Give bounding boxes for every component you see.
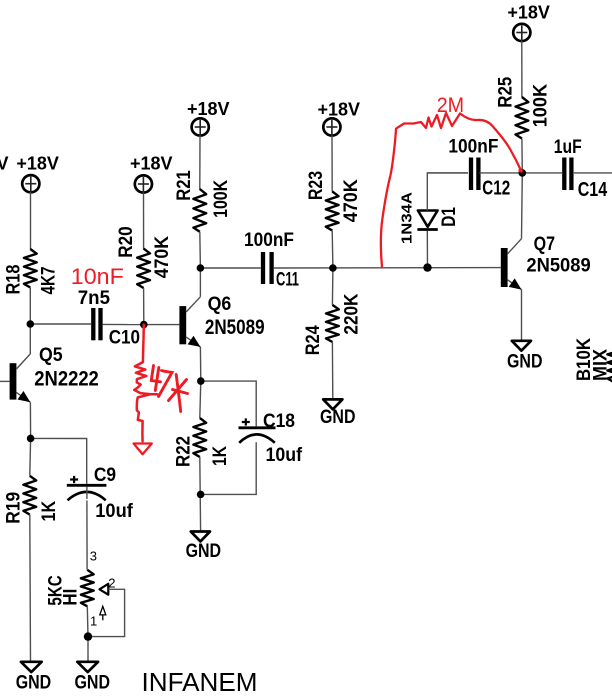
wire P2 to R20 [143,193,145,249]
resistor R19 1K [4,476,61,524]
svg-text:470K: 470K [341,179,362,222]
svg-text:Q7: Q7 [534,233,555,255]
wire R23 bottom to node [331,231,334,269]
wire node row y=268 [200,267,500,269]
red hand-drawn 2M resistor wire [381,113,523,267]
svg-text:10uf: 10uf [95,501,133,522]
wire P4 to R23 [331,136,333,192]
red annotation 2M text [437,94,464,117]
svg-text:R24: R24 [303,325,324,355]
svg-text:10uf: 10uf [266,445,303,466]
svg-text:+18V: +18V [318,100,361,120]
wire P5 to R25 [521,41,523,97]
svg-text:GND: GND [75,673,111,694]
svg-text:1: 1 [90,614,97,629]
wire R20 bottom to node [143,288,145,325]
node R22/C18/GND [197,491,205,499]
resistor R24 220K [303,293,363,355]
svg-text:100K: 100K [211,180,232,218]
wire node row y=324 [30,323,144,326]
svg-text:C11: C11 [276,270,299,291]
svg-text:2N5089: 2N5089 [526,255,590,277]
svg-text:4K7: 4K7 [39,267,60,295]
power +18V P5 (over R25) [507,3,550,42]
node R18/C10/Q5 [27,320,35,328]
title INFANEM [142,667,258,697]
wire R24 top [331,268,334,305]
capacitor C14 1uF [554,137,608,201]
wire Q6 emitter junction to C18 [201,381,256,426]
wire Q7 emitter to GND [521,290,523,341]
resistor R18 4K7 [4,249,60,295]
svg-text:+18V: +18V [507,3,550,23]
wire R22 top [200,381,201,418]
svg-text:100K: 100K [531,84,552,128]
resistor R25 100K [496,76,552,138]
svg-text:R25: R25 [496,76,517,107]
potentiometer 5KC HI [46,549,125,637]
transistor Q6 2N5089 [179,293,264,347]
red hand-drawn 47K resistor sketch [134,325,158,455]
svg-text:100nF: 100nF [448,137,498,158]
node R23/R24 [329,264,337,272]
svg-text:1N34A: 1N34A [399,192,416,244]
ground under pot [75,662,111,694]
svg-text:1K: 1K [210,446,231,466]
svg-text:1K: 1K [39,501,60,522]
resistor R21 100K [174,170,232,232]
capacitor C18 10uf electrolytic [239,411,303,466]
wire R19 bottom to GND [29,515,32,662]
svg-text:Q5: Q5 [39,344,63,366]
resistor R22 1K [174,418,232,467]
wire R21 bottom to node [199,232,202,268]
partial +18V text at left edge [0,154,9,174]
power +18V P2 (over R20) [130,153,173,193]
wire Q5 base [0,380,10,382]
ground under Q7 [507,341,543,373]
ground under R19 [16,662,52,694]
svg-text:470K: 470K [152,236,173,279]
svg-text:C14: C14 [578,179,608,201]
wire R25 bottom to node [521,139,523,173]
transistor Q5 2N2222 [10,344,99,402]
svg-text:C9: C9 [94,465,116,486]
diode D1 1N34A [399,192,461,244]
capacitor C9 10uf electrolytic [67,465,134,522]
red handwritten 47k text [151,366,187,412]
wire pot bottom [86,606,89,662]
svg-text:+18V: +18V [16,154,59,174]
svg-text:C18: C18 [263,411,295,432]
svg-text:+18V: +18V [130,153,173,173]
svg-text:GND: GND [186,541,222,562]
svg-text:V: V [0,154,9,174]
svg-text:MIX: MIX [591,349,612,381]
svg-text:2N5089: 2N5089 [205,316,265,339]
wire D1 top corner [427,173,468,211]
wire P3 to R21 [199,136,201,190]
svg-text:R22: R22 [174,436,195,467]
wire R22 bottom to GND [199,457,202,532]
node Q6 emitter/R22/C18 [197,377,205,385]
svg-text:R20: R20 [116,226,137,257]
wire D1 bottom to node [426,231,428,268]
capacitor C11 100nF [244,230,299,291]
wire C9 through down to pot [86,487,88,570]
wire C18 bottom loop [201,442,257,494]
wire node row y=172.9 [427,172,612,174]
wire R24 bottom to GND [331,342,333,399]
wire Q6 emitter down [199,347,201,381]
ground under R22 [186,532,222,562]
svg-text:D1: D1 [439,207,460,227]
ground under R24 [320,399,356,428]
wire Q6 base [144,324,180,326]
partial resistor at right edge (B10K MIX pot) [574,338,612,382]
power +18V P4 (over R23) [318,100,361,137]
resistor R20 470K [116,226,173,288]
svg-text:INFANEM: INFANEM [142,667,258,697]
svg-text:C10: C10 [109,328,140,349]
node D1/Q7 base [423,263,431,271]
svg-text:2N2222: 2N2222 [34,368,99,391]
power +18V P3 (over R21) [187,99,230,136]
power +18V P1 (over R18) [16,154,59,193]
svg-text:R23: R23 [306,171,327,200]
capacitor C12 100nF [448,137,510,200]
wire Q5 collector up [29,324,31,354]
wire Q7 collector up [521,173,524,239]
node Q5 emitter/R19/C9 [27,435,35,443]
red annotation 10nF over C10 [71,264,124,289]
wire Q6 collector up [199,268,201,297]
resistor R23 470K [306,171,362,231]
svg-text:GND: GND [320,407,356,428]
node Q6 collector/R21/C11 [197,264,205,272]
svg-text:R21: R21 [174,170,195,201]
svg-text:+18V: +18V [187,99,230,119]
svg-text:GND: GND [507,352,543,373]
svg-text:Q6: Q6 [208,293,232,315]
svg-text:HI: HI [61,589,82,606]
node pot pin1/wiper [84,632,92,640]
wire P1 to R18 [30,192,32,249]
wire Q5 emitter down [29,402,31,438]
svg-text:R18: R18 [4,265,25,295]
svg-text:1uF: 1uF [554,137,582,158]
svg-text:GND: GND [16,673,52,694]
svg-text:220K: 220K [342,293,363,334]
svg-text:R19: R19 [4,492,25,524]
wire R19 top [29,438,32,475]
transistor Q7 2N5089 [501,233,591,290]
wire R18 bottom to node [29,288,31,325]
node C10/R20/Q6 base [140,321,148,329]
capacitor C10 7n5 [78,288,140,349]
node C12/R25/C14/Q7 collector [519,169,527,177]
svg-text:7n5: 7n5 [78,288,111,309]
svg-text:3: 3 [90,549,97,564]
svg-text:10nF: 10nF [71,264,124,289]
wire Q5 emitter junction to C9 [31,438,87,484]
svg-text:C12: C12 [482,178,510,200]
svg-text:100nF: 100nF [244,230,294,251]
